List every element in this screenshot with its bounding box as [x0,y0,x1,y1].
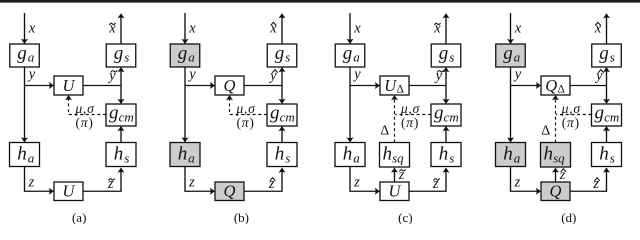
label y hat (b) [268,68,277,84]
svg-text:a: a [188,50,195,65]
svg-text:g: g [17,43,27,64]
caption (c) [398,210,412,225]
dashed wire mu sigma from g_cm (d) [556,114,591,116]
label x (c) [353,21,361,37]
block h_a hyper encoder (c) [335,143,365,167]
svg-text:Δ: Δ [380,124,389,139]
svg-text:z: z [514,175,521,191]
wire y branch into UD (c) [350,82,380,89]
label pi (b) [236,115,254,130]
svg-text:s: s [449,151,454,166]
label x (b) [188,21,196,37]
label z tilde (a) [107,176,115,192]
block Q quantizer bottom (b) [215,182,244,201]
wire U to latent line (a) [83,85,121,87]
block h_s hyper decoder (a) [106,143,136,167]
wire input x arrow into g_a (c) [347,13,354,44]
label y hat (d) [594,68,603,84]
svg-text:h: h [439,144,449,165]
wire latent double arrow g_s and g_cm (b) [279,67,286,104]
svg-text:s: s [124,151,129,166]
svg-text:h: h [383,144,393,165]
svg-text:s: s [124,50,129,65]
block U quantizer bottom (c) [380,182,409,201]
dashed wire mu sigma from g_cm (c) [395,114,431,116]
wire h_s up into g_cm (a) [118,126,125,143]
svg-text:(c): (c) [398,210,412,224]
svg-text:h: h [599,144,609,165]
svg-text:μ,σ: μ,σ [400,101,421,116]
block h_a hyper encoder (a) [10,143,40,167]
label mu sigma (a) [74,101,95,116]
block g_cm context model (d) [592,102,622,126]
wire h_s up into g_cm (b) [279,126,286,143]
svg-text:g: g [599,43,609,64]
block g_a encoder (b) [170,43,200,67]
label pi (c) [401,115,419,130]
svg-text:g: g [439,43,449,64]
svg-text:Δ: Δ [541,124,550,139]
wire g_a down to h_a (c) [347,67,354,143]
wire latent double arrow g_s and g_cm (a) [118,67,125,104]
svg-text:g: g [270,102,280,123]
wire z tilde into h_s (c) [409,168,450,192]
caption (a) [72,210,86,225]
label z tilde mid (c) [398,168,405,183]
svg-text:h: h [503,144,513,165]
dashed wire mu sigma from g_cm into Q (b) [226,95,267,115]
svg-text:cm: cm [119,109,134,124]
wire input x arrow into g_a (d) [507,13,514,44]
block g_cm context model (b) [267,102,297,126]
wire z tilde into h_s (a) [83,168,125,192]
label pi (a) [75,115,93,130]
svg-text:x: x [514,21,522,37]
block h_s hyper decoder (d) [592,143,622,167]
block QD quantizer top (d) [541,76,570,96]
svg-text:z: z [28,175,35,191]
block g_s decoder (d) [592,43,622,67]
svg-text:s: s [285,50,290,65]
label Delta (d) [541,124,550,139]
svg-text:Δ: Δ [397,84,404,96]
svg-text:sq: sq [392,151,404,166]
label mu sigma (d) [561,101,582,116]
wire z from h_a into Q (b) [185,167,215,195]
label x (d) [514,21,522,37]
svg-text:g: g [275,43,285,64]
svg-text:h: h [17,144,27,165]
top rule bar [0,0,640,3]
block Q quantizer top (b) [215,76,244,95]
wire output x arrow up (b) [279,13,286,44]
label x hat output (d) [594,21,602,37]
svg-text:g: g [434,102,444,123]
wire output x arrow up (a) [118,13,125,44]
svg-text:Q: Q [550,182,562,201]
block h_sq (c) [380,143,410,168]
block g_cm context model (a) [106,102,136,126]
label x tilde output (c) [433,21,441,37]
wire z from h_a into U (c) [350,167,380,195]
svg-text:Q: Q [545,76,557,95]
svg-text:cm: cm [280,109,295,124]
svg-text:(π): (π) [236,115,254,130]
label y (c) [352,67,361,83]
svg-text:cm: cm [604,109,619,124]
svg-text:g: g [178,43,188,64]
label y tilde (a) [107,68,117,84]
svg-text:s: s [610,151,615,166]
svg-text:Q: Q [224,182,236,201]
svg-text:x: x [28,21,36,37]
block g_cm context model (c) [431,102,461,126]
svg-text:(π): (π) [401,115,419,130]
svg-text:μ,σ: μ,σ [74,101,95,116]
svg-text:sq: sq [553,151,565,166]
label y tilde (c) [434,68,444,84]
wire latent double arrow g_s and g_cm (c) [443,67,450,104]
block h_s hyper decoder (c) [431,143,461,167]
label x (a) [28,21,36,37]
svg-text:y: y [27,67,36,83]
svg-text:h: h [343,144,353,165]
label x hat output (b) [269,21,277,37]
svg-text:s: s [285,151,290,166]
dashed wire mu sigma from g_cm into U (a) [65,95,106,115]
wire z hat up into h_sq (d) [552,168,559,183]
svg-text:y: y [513,67,522,83]
block U quantizer top (a) [54,76,83,95]
svg-text:a: a [28,151,35,166]
wire y branch into QD (d) [511,82,542,89]
wire UD to latent line (c) [409,85,446,87]
block h_s hyper decoder (b) [267,143,297,167]
svg-text:(b): (b) [234,210,249,224]
svg-text:x: x [353,21,361,37]
block UD quantizer top (c) [380,76,409,96]
svg-text:h: h [178,144,188,165]
wire latent double arrow g_s and g_cm (d) [603,67,610,104]
svg-text:y: y [107,68,116,84]
svg-text:h: h [114,144,124,165]
dashed wire h_sq up into QD (d) [552,95,559,143]
dashed wire h_sq up into UD (c) [391,95,398,143]
wire y branch into Q (b) [185,82,215,89]
caption (b) [234,210,249,225]
wire z hat into h_s (d) [570,168,610,192]
wire QD to latent line (d) [570,85,607,87]
svg-text:z: z [188,175,195,191]
label z tilde (c) [432,176,440,192]
svg-text:(π): (π) [562,115,580,130]
wire Q to latent line (b) [244,85,282,87]
wire g_a down to h_a (b) [182,67,189,143]
label z (b) [188,175,195,191]
label z hat (b) [268,176,275,192]
svg-text:g: g [114,43,124,64]
wire h_s up into g_cm (d) [603,126,610,143]
block h_a hyper encoder (d) [496,143,526,167]
label y (b) [187,67,196,83]
svg-text:g: g [595,102,605,123]
block g_s decoder (c) [431,43,461,67]
wire z hat into h_s (b) [244,168,286,192]
svg-text:(d): (d) [561,210,576,224]
wire output x arrow up (c) [443,13,450,44]
svg-text:μ,σ: μ,σ [235,101,256,116]
label mu sigma (c) [400,101,421,116]
wire z from h_a into U (a) [25,167,55,195]
svg-text:a: a [514,50,521,65]
svg-text:g: g [343,43,353,64]
label x tilde output (a) [108,21,116,37]
caption (d) [561,210,576,225]
svg-text:a: a [353,151,360,166]
svg-text:(π): (π) [75,115,93,130]
block U quantizer bottom (a) [54,182,83,201]
wire h_s up into g_cm (c) [443,126,450,143]
block Q quantizer bottom (d) [541,182,570,201]
svg-text:(a): (a) [72,210,86,224]
wire z tilde up into h_sq (c) [391,168,398,183]
svg-text:z: z [353,175,360,191]
label pi (d) [562,115,580,130]
svg-text:U: U [384,76,397,95]
block g_a encoder (d) [496,43,526,67]
svg-text:μ,σ: μ,σ [561,101,582,116]
svg-text:y: y [187,67,196,83]
label z (a) [28,175,35,191]
svg-text:y: y [434,68,443,84]
svg-text:g: g [503,43,513,64]
svg-text:s: s [610,50,615,65]
wire y branch into U (a) [25,82,55,89]
block g_s decoder (a) [106,43,136,67]
block h_sq (d) [541,143,571,168]
label z (d) [514,175,521,191]
wire z from h_a into Q (d) [511,167,542,195]
label Delta (c) [380,124,389,139]
svg-text:Δ: Δ [558,84,565,96]
svg-text:h: h [275,144,285,165]
wire g_a down to h_a (a) [21,67,28,143]
label y (a) [27,67,36,83]
label mu sigma (b) [235,101,256,116]
svg-text:a: a [353,50,360,65]
block h_a hyper encoder (b) [170,143,200,167]
label y (d) [513,67,522,83]
svg-text:a: a [28,50,35,65]
wire g_a down to h_a (d) [507,67,514,143]
block g_a encoder (c) [335,43,365,67]
svg-text:y: y [352,67,361,83]
label z (c) [353,175,360,191]
svg-text:s: s [449,50,454,65]
svg-text:Q: Q [224,76,236,95]
svg-text:g: g [109,102,119,123]
wire output x arrow up (d) [603,13,610,44]
block g_s decoder (b) [267,43,297,67]
svg-text:U: U [63,182,76,201]
label z hat (d) [592,176,599,192]
svg-text:U: U [63,76,76,95]
block g_a encoder (a) [10,43,40,67]
wire input x arrow into g_a (b) [182,13,189,44]
svg-text:cm: cm [444,109,459,124]
wire input x arrow into g_a (a) [21,13,28,44]
label z hat mid (d) [559,168,566,183]
svg-text:h: h [544,144,554,165]
svg-text:a: a [188,151,195,166]
svg-text:a: a [514,151,521,166]
svg-text:U: U [389,182,402,201]
svg-text:x: x [188,21,196,37]
